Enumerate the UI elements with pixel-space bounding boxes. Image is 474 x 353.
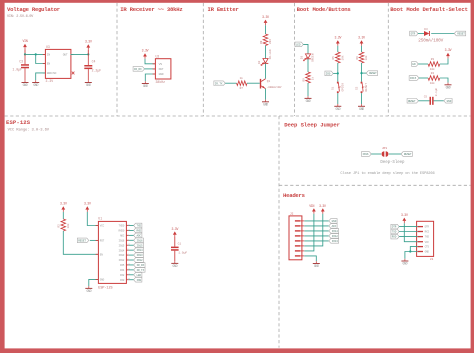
supply 3.3V regulator output — [85, 40, 92, 50]
net flag ADC header — [329, 224, 337, 229]
svg-text:R9: R9 — [302, 78, 305, 82]
svg-text:IR Receiver ~~ 38kHz: IR Receiver ~~ 38kHz — [120, 6, 182, 13]
header J2 pin 6 pad — [295, 245, 300, 246]
supply VIN — [23, 39, 28, 49]
svg-text:RXD: RXD — [136, 229, 141, 232]
wire JP1 to RESET flag — [389, 153, 401, 155]
svg-text:GND: GND — [425, 251, 430, 254]
svg-text:IO15: IO15 — [119, 244, 125, 247]
wire R4 to ground — [440, 78, 448, 83]
section divider vertical 4 — [387, 3, 389, 116]
net flag ADC — [134, 233, 142, 238]
node junction IO0 — [337, 72, 339, 74]
pin stub U3 IN — [43, 53, 46, 55]
wire VIN to U3 IN — [25, 53, 45, 55]
diode D3 250mA/100V — [424, 31, 429, 36]
svg-text:GND: GND — [359, 107, 364, 111]
header J2 pin 3 pad — [295, 230, 300, 231]
svg-text:DTR: DTR — [425, 226, 430, 229]
svg-text:GND: GND — [100, 279, 105, 282]
wire U3 OUT to 3.3V — [71, 53, 89, 55]
wire VIN vertical — [24, 49, 26, 54]
pin stub U2 VS — [153, 63, 156, 65]
ground GND below U3 — [32, 80, 39, 87]
wire J2 pin8 to ground — [304, 256, 316, 261]
wire IR_RX to U2 OUT — [145, 68, 156, 70]
header J2 pin 5 stub — [300, 240, 304, 242]
header J1 pin 6 pad — [418, 251, 423, 252]
svg-text:C4: C4 — [92, 59, 96, 63]
wire EN to R3 — [418, 63, 428, 65]
node junction OUT at C4 — [87, 53, 89, 55]
svg-text:IO14: IO14 — [137, 249, 144, 252]
wire C4 bottom lead — [87, 69, 89, 80]
ground GND below S2 — [358, 104, 365, 111]
svg-text:IO15: IO15 — [137, 244, 144, 247]
svg-text:D3: D3 — [424, 28, 428, 31]
svg-text:3.3V: 3.3V — [262, 15, 269, 19]
svg-text:Boot Mode Default-Select: Boot Mode Default-Select — [390, 6, 468, 13]
wire 3.3V vertical — [87, 50, 89, 55]
wire R7 to Q1 base — [247, 82, 260, 84]
supply 3.3V U1 VCC — [84, 202, 91, 212]
svg-text:3.3V: 3.3V — [401, 213, 408, 217]
net flag TXD header — [391, 229, 399, 234]
svg-text:GND: GND — [23, 83, 28, 87]
LED D2 IR-LED — [261, 59, 268, 66]
header J2 pin 5 pad — [295, 240, 300, 241]
wire U1 IO16 to flag — [129, 239, 134, 241]
svg-text:IO13: IO13 — [137, 254, 144, 257]
svg-text:EN: EN — [412, 63, 416, 66]
header J1 — [417, 221, 434, 256]
net flag RXD header — [391, 234, 399, 239]
svg-text:R5: R5 — [332, 56, 335, 60]
section divider vertical 3 — [294, 3, 296, 116]
wire RESET flag stub — [362, 72, 367, 74]
wire DTR to J1 — [399, 226, 417, 228]
header J1 pin 1 pad — [418, 226, 423, 227]
wire R6 to S2 — [361, 63, 363, 82]
wire C5 to GND flag — [434, 100, 444, 102]
no-connect cross U3 NC pin — [72, 72, 75, 75]
net flag IO0 — [325, 71, 333, 76]
wire RESET to U1 RST — [90, 239, 98, 241]
svg-text:CTS: CTS — [425, 246, 430, 249]
net flag IR_RX — [134, 263, 145, 268]
wire IR_TX to R7 — [225, 82, 236, 84]
wire D3 to RESET flag — [431, 33, 454, 35]
IR receiver U2 — [155, 59, 171, 79]
pin stub IO4 — [126, 269, 129, 271]
svg-text:GND: GND — [33, 83, 38, 87]
svg-text:IO0: IO0 — [136, 279, 141, 282]
svg-text:3.3V: 3.3V — [319, 204, 326, 208]
svg-text:ESP-12S: ESP-12S — [98, 286, 112, 290]
wire R9 to ground — [307, 83, 309, 96]
node VIN junction at C3 — [24, 53, 26, 55]
pin stub IO14 — [126, 249, 129, 251]
pin stub IO16 — [126, 239, 129, 241]
resistor R6 — [359, 52, 364, 63]
ground GND below U2 — [142, 81, 149, 88]
svg-text:IR_TX: IR_TX — [137, 269, 145, 272]
svg-text:IO12: IO12 — [137, 259, 144, 262]
pin stub TXD0 — [126, 225, 129, 227]
net flag TXD — [134, 223, 142, 228]
ground GND below C3 — [22, 80, 29, 87]
section divider vertical 5 — [278, 116, 280, 348]
svg-text:GND: GND — [143, 84, 148, 88]
resistor R3 — [428, 62, 440, 67]
header J1 pin 5 pad — [418, 246, 423, 247]
header J2 pin 8 pad — [295, 255, 300, 256]
net flag IR_TX — [214, 81, 225, 86]
svg-text:IO4: IO4 — [120, 269, 125, 272]
svg-text:10k: 10k — [341, 55, 345, 60]
wire R8 to D2 — [265, 46, 267, 59]
svg-text:IR-LED: IR-LED — [269, 49, 272, 59]
wire R5 to S1 — [337, 63, 339, 82]
wire U1 GND to ground — [89, 279, 98, 286]
wire Q1 emitter to ground — [265, 89, 267, 100]
wire RXD to J1 TXO — [399, 236, 417, 238]
svg-text:1.0µF: 1.0µF — [178, 251, 187, 254]
wire IO15 to R4 — [419, 77, 428, 79]
header J2 pin 3 stub — [300, 230, 304, 232]
wire 3.3V to U2 VS — [145, 59, 155, 64]
capacitor C5 — [430, 97, 434, 105]
ground GND below J2 — [313, 261, 320, 268]
svg-text:JP1: JP1 — [382, 147, 387, 150]
svg-text:IO13: IO13 — [332, 240, 339, 243]
supply 3.3V R2 pullup — [60, 202, 67, 212]
svg-text:Headers: Headers — [283, 192, 306, 199]
header J2 pin 7 stub — [300, 250, 304, 252]
wire U1 ADC to flag — [129, 234, 134, 236]
svg-text:RESET: RESET — [404, 153, 412, 156]
svg-text:ESP-12S: ESP-12S — [6, 119, 31, 126]
svg-text:DTR: DTR — [411, 33, 416, 36]
net flag RESET mid — [366, 71, 377, 76]
section divider vertical 2 — [202, 3, 204, 116]
wire 3.3V to R8 — [265, 25, 267, 34]
svg-text:3.3V: 3.3V — [46, 79, 54, 83]
net flag IO13 header — [329, 239, 339, 244]
switch S1 GPIO0 — [337, 82, 341, 93]
pin stub VCC — [96, 225, 99, 227]
wire U1 IO14 to flag — [129, 249, 134, 251]
svg-text:TXD: TXD — [136, 225, 141, 228]
header J2 pin 6 stub — [300, 245, 304, 247]
header J2 pin 2 pad — [295, 225, 300, 226]
svg-text:2R2: 2R2 — [269, 39, 272, 44]
svg-text:IO0: IO0 — [326, 72, 331, 75]
ground GND below C4 — [85, 80, 92, 87]
svg-text:GND/NC: GND/NC — [47, 71, 57, 75]
svg-text:LED: LED — [136, 274, 141, 277]
wire C3 bottom lead — [24, 68, 26, 80]
supply 3.3V pullup — [445, 48, 452, 58]
ground GND below J1 — [401, 259, 408, 266]
svg-text:1.0µF: 1.0µF — [12, 68, 22, 72]
ground GND below U1 — [85, 286, 92, 293]
wire R3 to 3.3V — [440, 58, 448, 64]
header J2 pin 4 pad — [295, 235, 300, 236]
svg-text:J2: J2 — [290, 213, 294, 216]
svg-text:GND: GND — [159, 73, 164, 76]
svg-text:1k: 1k — [311, 77, 315, 81]
svg-text:3.3V: 3.3V — [358, 36, 365, 40]
pin stub IO13 — [126, 254, 129, 256]
svg-text:Q1: Q1 — [267, 80, 271, 83]
capacitor C3 — [21, 64, 29, 68]
pin stub GND — [96, 278, 99, 280]
svg-text:GND: GND — [447, 100, 452, 103]
svg-text:IR_TX: IR_TX — [215, 82, 223, 85]
svg-text:10k: 10k — [430, 67, 435, 71]
svg-text:R4: R4 — [431, 72, 435, 75]
header J2 pin 7 pad — [295, 250, 300, 251]
header J1 pin 2 pad — [418, 231, 423, 232]
svg-text:3.3V: 3.3V — [445, 48, 452, 52]
border frame bottom band — [0, 348, 474, 353]
resistor R8 — [263, 34, 268, 46]
net flag RESET to U1 — [77, 238, 88, 243]
svg-text:R2: R2 — [58, 224, 61, 228]
wire 3.3V to R5 — [337, 46, 339, 52]
wire C4 top lead — [87, 54, 89, 65]
svg-text:J1: J1 — [430, 258, 434, 261]
svg-text:R8: R8 — [260, 40, 263, 44]
pin stub ADC — [126, 234, 129, 236]
wire C1 to ground — [174, 251, 176, 262]
svg-text:IO15: IO15 — [410, 77, 417, 80]
wire D2 to Q1 collector — [265, 63, 267, 78]
net flag RXD — [134, 228, 142, 233]
svg-text:GND: GND — [172, 264, 177, 268]
svg-text:Close JP1 to enable deep sleep: Close JP1 to enable deep sleep on the ES… — [340, 171, 434, 176]
supply 3.3V FTDI — [401, 213, 408, 223]
pin stub IO5 — [126, 264, 129, 266]
svg-text:RXI: RXI — [425, 231, 430, 234]
resistor R2 — [61, 219, 66, 231]
net flag IO0 — [134, 277, 142, 282]
net flag RESET diode row — [454, 31, 465, 36]
supply 3.3V IR receiver — [142, 49, 149, 59]
svg-text:VIN: VIN — [23, 39, 28, 43]
supply 3.3V IO0 branch — [334, 36, 341, 46]
svg-text:3.3V: 3.3V — [85, 40, 92, 44]
LED D3 green — [303, 54, 310, 61]
svg-text:10k: 10k — [66, 223, 70, 228]
node junction EN tap — [35, 53, 37, 55]
wire IO16 to JP1 — [371, 153, 381, 155]
header J2 pin 1 stub — [300, 220, 304, 222]
capacitor C4 — [84, 65, 92, 69]
svg-text:Voltage Regulator: Voltage Regulator — [7, 6, 60, 13]
svg-text:VS: VS — [159, 63, 163, 66]
header J2 pin 8 stub — [300, 255, 304, 257]
wire S1 to ground — [337, 93, 339, 104]
wire J2 pin2 to ADC flag — [304, 225, 329, 227]
net flag IR_TX — [134, 268, 145, 273]
net flag IO14 header — [329, 229, 339, 234]
svg-text:IR Emitter: IR Emitter — [208, 6, 239, 13]
wire U1 TXD0 to flag — [129, 225, 134, 227]
resistor R7 — [237, 81, 247, 86]
wire LED flag to D3 — [303, 44, 308, 54]
svg-text:2.2µF: 2.2µF — [92, 68, 102, 72]
svg-text:VIN: VIN — [309, 204, 314, 208]
wire J1 GND to ground — [405, 252, 418, 259]
svg-text:GND: GND — [335, 107, 340, 111]
wire DTR to D3 diode — [418, 33, 424, 35]
net flag IO12 — [134, 258, 144, 263]
svg-text:38kHz: 38kHz — [156, 80, 166, 84]
svg-text:ADC: ADC — [120, 234, 125, 237]
wire S2 to ground — [361, 93, 363, 104]
svg-text:10k: 10k — [430, 81, 435, 85]
ground GND below C1 — [171, 261, 178, 268]
wire J2 pin5 to IO13 flag — [304, 240, 329, 242]
pin stub U3 EN — [43, 63, 46, 65]
wire 3.3V to R2 — [62, 212, 64, 219]
net flag LED — [134, 273, 142, 278]
border frame right band — [471, 0, 474, 353]
svg-text:RESET: RESET — [365, 83, 368, 92]
svg-text:3.3V: 3.3V — [60, 202, 67, 206]
svg-text:IO0: IO0 — [120, 279, 125, 282]
wire U1 IO2 to flag — [129, 274, 134, 276]
svg-text:ADC: ADC — [332, 225, 337, 228]
capacitor C1 — [171, 247, 179, 251]
svg-text:R6: R6 — [356, 56, 359, 60]
pin stub IO12 — [126, 259, 129, 261]
svg-text:250mA/100V: 250mA/100V — [418, 38, 443, 43]
wire D3 to R9 — [307, 59, 309, 72]
net flag IO15 — [134, 243, 144, 248]
wire 3.3V to U1 VCC — [87, 212, 98, 226]
header J2 pin 1 pad — [295, 220, 300, 221]
svg-text:-800mA/40V: -800mA/40V — [267, 85, 282, 89]
section divider vertical 1 — [116, 3, 118, 116]
wire U1 IO0 to flag — [129, 279, 134, 281]
svg-text:S1: S1 — [332, 86, 335, 90]
svg-text:U2: U2 — [156, 55, 160, 59]
ground GND below S1 — [334, 104, 341, 111]
svg-text:3.3V: 3.3V — [84, 202, 91, 206]
pin stub U2 OUT — [153, 68, 156, 70]
wire EN tie to IN — [36, 54, 45, 63]
supply 3.3V header — [319, 204, 326, 214]
border frame left band — [0, 0, 5, 353]
resistor R4 — [428, 76, 440, 81]
header J2 pin 2 stub — [300, 225, 304, 227]
capacitor C1 supply 3.3V — [171, 227, 178, 237]
svg-text:TXD0: TXD0 — [119, 225, 125, 228]
svg-text:IO16: IO16 — [362, 153, 369, 156]
svg-text:RESET: RESET — [369, 72, 377, 75]
wire R2 to U1 EN — [63, 231, 98, 254]
pin stub U3 OUT — [71, 53, 74, 55]
pin stub U3 GND — [43, 72, 46, 74]
svg-text:3.3V: 3.3V — [142, 49, 149, 53]
header J1 pin 4 pad — [418, 241, 423, 242]
net flag IO14 — [134, 248, 144, 253]
svg-text:RESET: RESET — [408, 100, 416, 103]
svg-text:GND: GND — [403, 262, 408, 266]
svg-text:Deep-Sleep: Deep-Sleep — [380, 160, 405, 165]
svg-text:GND: GND — [332, 220, 337, 223]
net flag IR_RX — [133, 67, 144, 72]
header J2 pin 4 stub — [300, 235, 304, 237]
wire J2 pin7 to VIN — [304, 214, 314, 251]
pin stub IO0 — [126, 279, 129, 281]
svg-text:GND: GND — [446, 85, 451, 89]
wire J2 pin3 to IO14 flag — [304, 230, 329, 232]
wire J1 CTS to ground — [410, 247, 417, 252]
svg-text:IO16: IO16 — [119, 239, 125, 242]
wire TXD to J1 RXI — [399, 231, 417, 233]
supply 3.3V IR emitter — [262, 15, 269, 25]
ground GND below Q1 — [262, 100, 269, 107]
supply VIN header — [309, 204, 316, 214]
svg-text:GND: GND — [86, 289, 91, 293]
svg-text:GND: GND — [306, 99, 311, 103]
resistor R9 — [306, 72, 311, 83]
wire U2 GND to ground — [145, 74, 155, 81]
svg-text:VCC: VCC — [425, 241, 430, 244]
svg-text:TXO: TXO — [425, 236, 430, 239]
svg-text:GPIO0: GPIO0 — [342, 83, 345, 92]
wire J2 pin4 to IO12 flag — [304, 235, 329, 237]
svg-text:IO14: IO14 — [119, 249, 125, 252]
svg-text:IO5: IO5 — [120, 264, 125, 267]
svg-text:IO12: IO12 — [332, 235, 339, 238]
wire RESET to C5 — [419, 100, 430, 102]
svg-text:C1: C1 — [178, 243, 182, 246]
svg-text:DTR: DTR — [392, 226, 397, 229]
node junction CTS-GND — [409, 250, 411, 252]
svg-text:Deep Sleep Jumper: Deep Sleep Jumper — [284, 121, 340, 128]
svg-text:IO14: IO14 — [332, 230, 339, 233]
svg-text:LED: LED — [296, 43, 301, 46]
svg-text:IR_RX: IR_RX — [137, 264, 145, 267]
net flag RESET jumper — [401, 152, 412, 157]
svg-text:RST: RST — [100, 240, 105, 243]
wire J2 pin6 to 3.3V — [304, 214, 323, 246]
svg-text:IO2: IO2 — [120, 274, 125, 277]
header J1 pin 3 pad — [418, 236, 423, 237]
svg-text:VCC Range: 3.0-3.6V: VCC Range: 3.0-3.6V — [8, 129, 50, 133]
svg-text:OUT: OUT — [63, 54, 68, 57]
ground GND below R9 — [305, 96, 312, 103]
pin stub U2 GND — [153, 73, 156, 75]
wire U1 IO12 to flag — [129, 259, 134, 261]
supply 3.3V RESET branch — [358, 36, 365, 46]
wire 3.3V to C1 — [174, 237, 176, 247]
net flag IO12 header — [329, 234, 339, 239]
svg-text:GND: GND — [314, 264, 319, 268]
svg-text:S2: S2 — [355, 86, 358, 90]
net flag RESET cap row — [407, 99, 418, 104]
wire C3 top lead — [24, 54, 26, 64]
section divider horizontal 1 — [5, 115, 471, 117]
ESP-12S module U1 — [98, 221, 126, 283]
svg-text:RESET: RESET — [78, 239, 86, 242]
svg-text:VCC: VCC — [100, 225, 105, 228]
